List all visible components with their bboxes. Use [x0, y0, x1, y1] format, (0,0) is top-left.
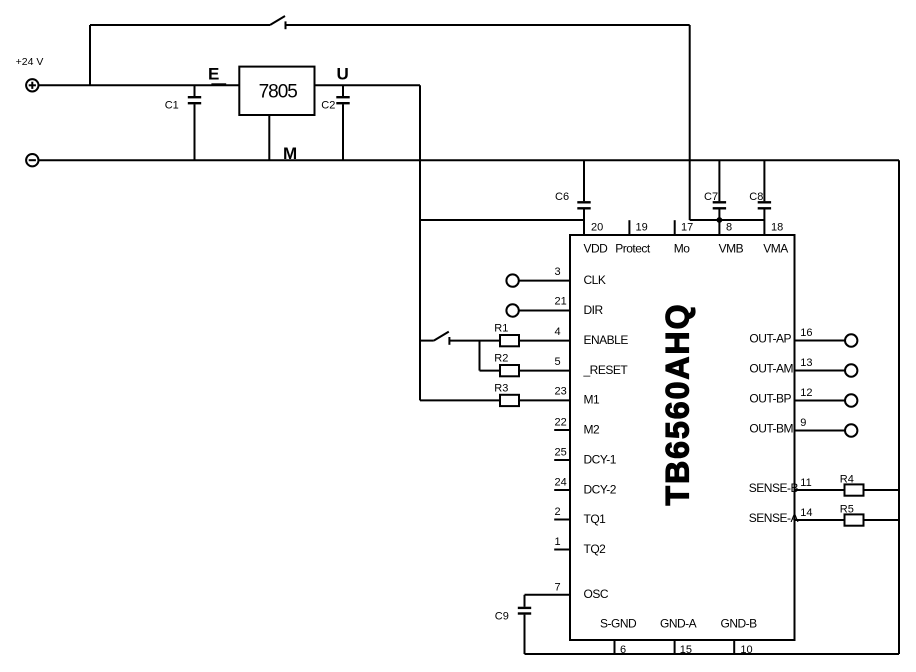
regulator 7805 body — [239, 67, 314, 115]
svg-text:9: 9 — [800, 417, 806, 429]
wire R5 to ground rail — [864, 519, 900, 521]
pin 1 stub — [554, 549, 570, 551]
capacitor C1 — [188, 85, 201, 160]
wire 5V to VDD y=220 — [420, 219, 584, 221]
svg-text:10: 10 — [740, 644, 752, 656]
svg-text:5: 5 — [555, 356, 561, 368]
svg-text:4: 4 — [555, 326, 561, 338]
wire vertical from +24V up to top rail — [89, 25, 91, 85]
svg-text:OUT-AP: OUT-AP — [749, 332, 791, 346]
svg-text:VMB: VMB — [719, 241, 744, 255]
capacitor C2 — [336, 85, 349, 160]
wire right ground rail vertical — [898, 160, 900, 654]
svg-text:U: U — [337, 65, 349, 84]
svg-text:7: 7 — [555, 581, 561, 593]
terminal OUT-BM circle — [845, 424, 857, 436]
resistor R5 — [845, 514, 864, 525]
IC U1 TB6560AHQ body — [570, 235, 795, 640]
svg-text:TB6560AHQ: TB6560AHQ — [660, 303, 696, 506]
resistor R1 — [500, 335, 519, 346]
wire R4 to ground rail — [864, 489, 900, 491]
svg-text:OUT-BM: OUT-BM — [749, 422, 793, 436]
svg-text:11: 11 — [800, 477, 811, 489]
wire OUT-BP pin12 — [795, 400, 846, 402]
svg-text:Mo: Mo — [674, 241, 690, 255]
capacitor C8 — [758, 160, 771, 235]
switch S2 enable — [434, 332, 450, 345]
svg-text:C1: C1 — [165, 100, 179, 112]
wire top rail left segment — [90, 24, 270, 26]
wire +24V to 7805 input — [39, 84, 240, 86]
svg-text:M2: M2 — [584, 422, 600, 436]
svg-text:VDD: VDD — [584, 241, 609, 255]
wire 5V bus to R3 — [420, 399, 500, 401]
svg-text:GND-B: GND-B — [721, 617, 758, 631]
svg-text:Protect: Protect — [615, 241, 651, 255]
pin 10 stub — [733, 640, 735, 654]
wire R1 to pin4 — [519, 340, 570, 342]
svg-text:15: 15 — [680, 644, 692, 656]
capacitor C9 — [518, 595, 531, 654]
svg-text:DIR: DIR — [584, 303, 604, 317]
wire vertical 5V bus x=420 — [419, 85, 421, 400]
svg-text:13: 13 — [800, 357, 812, 369]
pin 17 stub — [674, 220, 676, 235]
wire R3 to pin23 — [519, 399, 570, 401]
svg-text:SENSE-B: SENSE-B — [749, 481, 799, 495]
svg-text:DCY-2: DCY-2 — [584, 482, 617, 496]
wire branch down to R2 — [479, 341, 481, 371]
wire SENSE-B to R4 — [795, 489, 845, 491]
svg-text:7805: 7805 — [259, 82, 298, 103]
svg-text:_RESET: _RESET — [583, 363, 629, 377]
node junction dot VMB — [717, 217, 723, 223]
wire branch to R2 — [480, 370, 501, 372]
svg-text:24: 24 — [555, 476, 567, 488]
svg-text:18: 18 — [771, 222, 783, 234]
svg-text:21: 21 — [555, 296, 567, 308]
resistor R3 — [500, 395, 519, 406]
resistor R2 — [500, 365, 519, 376]
svg-text:17: 17 — [681, 222, 693, 234]
svg-text:TQ2: TQ2 — [584, 542, 607, 556]
svg-text:VMA: VMA — [763, 241, 788, 255]
svg-text:GND-A: GND-A — [660, 617, 697, 631]
switch S1 — [270, 16, 286, 29]
svg-text:C7: C7 — [704, 191, 718, 203]
svg-text:M: M — [283, 144, 297, 163]
resistor R4 — [845, 484, 864, 495]
wire R2 to pin5 — [519, 370, 570, 372]
wire DIR pin21 — [519, 310, 570, 312]
svg-text:OUT-AM: OUT-AM — [749, 362, 793, 376]
svg-text:R3: R3 — [494, 382, 508, 394]
svg-text:DCY-1: DCY-1 — [584, 452, 617, 466]
svg-text:R4: R4 — [840, 473, 854, 485]
svg-text:R2: R2 — [494, 352, 508, 364]
terminal +24V plus — [26, 79, 38, 91]
wire VMB VMA feed y=220 — [690, 219, 765, 221]
svg-text:R1: R1 — [494, 322, 508, 334]
svg-text:C6: C6 — [555, 191, 569, 203]
svg-text:2: 2 — [555, 506, 561, 518]
svg-text:12: 12 — [800, 387, 812, 399]
pin 22 stub — [554, 429, 570, 431]
svg-text:CLK: CLK — [584, 273, 606, 287]
7805 input pin stub — [211, 83, 226, 86]
terminal CLK circle — [506, 274, 518, 286]
svg-text:TQ1: TQ1 — [584, 512, 607, 526]
wire OUT-AM pin13 — [795, 370, 846, 372]
terminal OUT-BP circle — [845, 394, 857, 406]
svg-text:1: 1 — [555, 536, 561, 548]
wire 7805 output to corner — [315, 84, 421, 86]
wire CLK pin3 — [519, 280, 570, 282]
svg-text:SENSE-A: SENSE-A — [749, 511, 799, 525]
svg-text:E: E — [208, 65, 219, 84]
svg-text:8: 8 — [726, 222, 732, 234]
pin 25 stub — [554, 459, 570, 461]
svg-text:22: 22 — [555, 416, 567, 428]
svg-text:OSC: OSC — [584, 587, 609, 601]
svg-text:C8: C8 — [749, 191, 763, 203]
svg-text:25: 25 — [555, 446, 567, 458]
svg-text:C9: C9 — [495, 611, 509, 623]
svg-text:R5: R5 — [840, 503, 854, 515]
wire SENSE-A to R5 — [795, 519, 845, 521]
svg-text:20: 20 — [591, 222, 603, 234]
svg-text:M1: M1 — [584, 393, 600, 407]
terminal DIR circle — [506, 304, 518, 316]
wire switched 24V down x=689.7 — [689, 25, 691, 220]
capacitor C6 — [577, 160, 590, 235]
capacitor C7 — [713, 160, 726, 220]
wire switch to R1 — [449, 340, 500, 342]
terminal OUT-AP circle — [845, 334, 857, 346]
svg-text:S-GND: S-GND — [600, 617, 637, 631]
svg-text:14: 14 — [800, 507, 812, 519]
pin 24 stub — [554, 489, 570, 491]
wire OUT-BM pin9 — [795, 430, 846, 432]
wire 7805 M pin to ground — [268, 115, 270, 160]
svg-text:6: 6 — [620, 644, 626, 656]
svg-text:19: 19 — [636, 222, 648, 234]
svg-text:OUT-BP: OUT-BP — [749, 392, 791, 406]
wire bottom ground rail — [525, 653, 900, 655]
pin 2 stub — [554, 519, 570, 521]
wire ground rail — [39, 159, 900, 161]
wire top rail right segment — [286, 24, 690, 26]
svg-text:3: 3 — [555, 266, 561, 278]
svg-text:16: 16 — [800, 327, 812, 339]
svg-text:C2: C2 — [321, 100, 335, 112]
wire OSC pin7 — [525, 594, 571, 596]
svg-text:+24 V: +24 V — [16, 56, 44, 68]
svg-text:ENABLE: ENABLE — [584, 333, 629, 347]
pin 19 stub — [628, 220, 630, 235]
pin 15 stub — [674, 640, 676, 654]
wire to enable switch — [420, 340, 434, 342]
pin 6 stub — [614, 640, 616, 654]
terminal 0V minus — [26, 154, 38, 166]
wire pin8 VMB — [718, 220, 720, 235]
wire OUT-AP pin16 — [795, 340, 846, 342]
svg-text:23: 23 — [555, 386, 567, 398]
terminal OUT-AM circle — [845, 364, 857, 376]
